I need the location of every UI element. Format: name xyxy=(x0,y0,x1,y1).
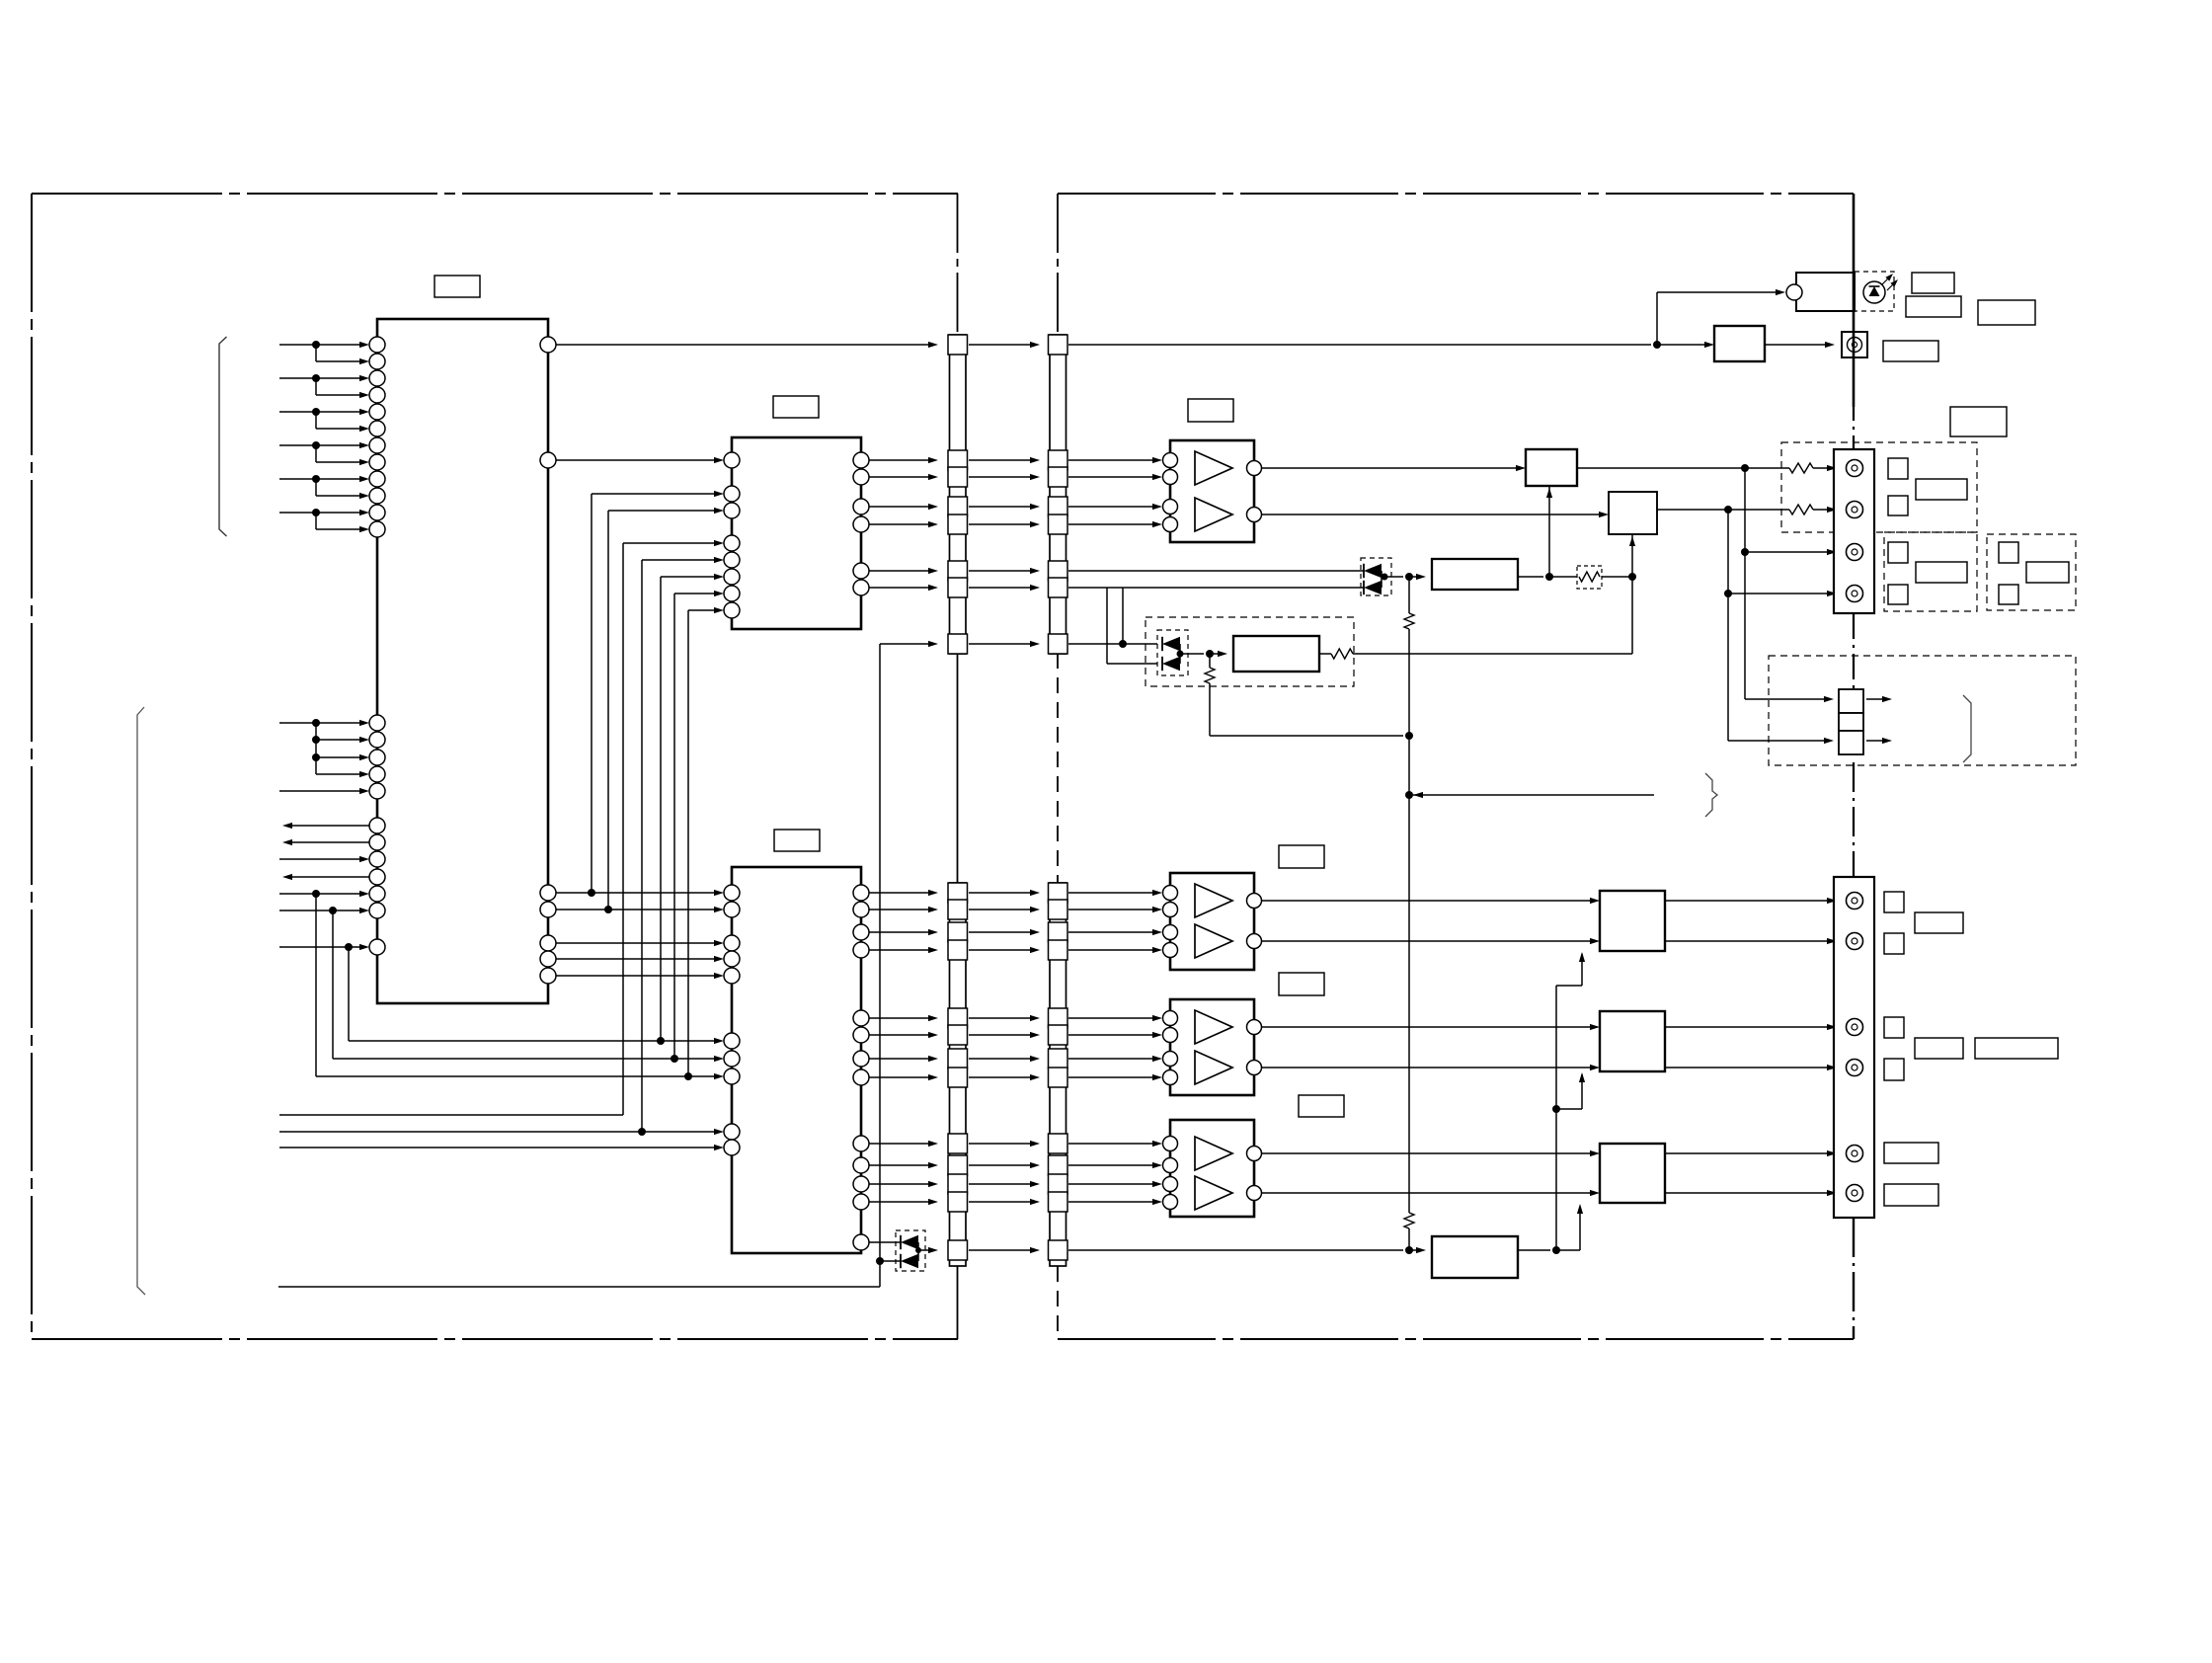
wire bus U101 to IC201/IC301 xyxy=(688,607,724,1076)
label wide a12 xyxy=(1915,912,1963,933)
IC402 input pin xyxy=(1163,886,1178,901)
dashed group box right small xyxy=(1987,534,2076,610)
U101 pin right xyxy=(540,968,556,984)
wire U101 to IC301 xyxy=(556,956,724,962)
wire buffer to K7 b xyxy=(1261,1065,1600,1070)
wire U101 to IC301 with tap xyxy=(556,906,724,913)
wire audio row through connectors xyxy=(869,1162,1162,1168)
wire K6 to jack a xyxy=(1665,898,1837,904)
wire audio row through connectors xyxy=(869,907,1162,912)
diode pair D202 xyxy=(1157,630,1204,675)
IC201 pin right xyxy=(853,516,869,532)
wire input to U101 xyxy=(279,856,369,862)
U101 pin left upper xyxy=(369,337,385,353)
label wide a34 xyxy=(1915,1038,1963,1059)
IC404 output pin xyxy=(1247,1186,1262,1201)
U101 pin left upper xyxy=(369,521,385,537)
U101 pin left lower xyxy=(369,750,385,765)
IC403 input pin xyxy=(1163,1052,1178,1067)
wire U101 to IC301 xyxy=(556,940,724,946)
wire tap row595 to row652 xyxy=(1122,588,1124,644)
wire input row to IC301 xyxy=(279,1128,724,1136)
IC402 output pin xyxy=(1247,934,1262,949)
IC IC201 label box xyxy=(773,396,819,418)
IC401 output pin xyxy=(1247,508,1262,522)
wire input pair to U101 xyxy=(279,341,369,364)
label wide r xyxy=(2026,562,2069,583)
IC201 pin right xyxy=(853,469,869,485)
wire audio row through connectors xyxy=(869,1199,1162,1205)
IC402 output pin xyxy=(1247,894,1262,909)
U101 pin left lower xyxy=(369,732,385,748)
board boundary below connector left xyxy=(957,1266,959,1339)
IC403 input pin xyxy=(1163,1028,1178,1043)
label sq jack2 xyxy=(1888,496,1908,515)
block K7 audio driver 2 xyxy=(1600,1011,1665,1071)
wire input row to IC301 xyxy=(279,1145,724,1150)
IC201 pin left xyxy=(724,535,740,551)
IC403 output pin xyxy=(1247,1020,1262,1035)
U101 pin left lower xyxy=(369,715,385,731)
label sq jack3 xyxy=(1888,542,1908,563)
diode pair D201 xyxy=(1361,558,1403,595)
IC201 pin left xyxy=(724,503,740,518)
label sq r1 xyxy=(1999,542,2018,563)
jack pin audio xyxy=(1847,1146,1863,1162)
IC201 pin right xyxy=(853,499,869,515)
wire K5 output chain xyxy=(1518,952,1585,1254)
U101 pin left upper xyxy=(369,505,385,520)
connector J202 audio out body xyxy=(1834,877,1874,1218)
label sq a1 xyxy=(1884,892,1904,912)
jack J101 remote out xyxy=(1842,332,1867,357)
wire bottom row to vertical riser xyxy=(278,644,884,1287)
connector CN101 board-to-board upper left half xyxy=(948,335,968,654)
wire main vertical chain xyxy=(1404,577,1414,1250)
connector CN202 board-to-board lower right half xyxy=(1049,883,1068,1266)
U101 pin left upper xyxy=(369,437,385,453)
wire audio row through connectors xyxy=(869,890,1162,896)
IC301 pin right xyxy=(853,1010,869,1026)
IC301 pin right xyxy=(853,1176,869,1192)
IC401 input pin xyxy=(1163,470,1178,485)
buffer amp IC403 body xyxy=(1170,999,1254,1095)
IC201 pin right xyxy=(853,580,869,595)
buffer triangle IC403-2 xyxy=(1195,1051,1232,1084)
IC201 pin left xyxy=(724,602,740,618)
wire video row through connectors xyxy=(869,521,1162,527)
bracket CN203 xyxy=(1963,695,1971,762)
U101 pin left upper xyxy=(369,471,385,487)
wire K8 to jack b xyxy=(1665,1190,1837,1196)
IC301 pin left xyxy=(724,1140,740,1155)
IC201 pin left xyxy=(724,552,740,568)
dashed group box video jacks xyxy=(1781,442,1977,532)
diode pair D301 protection xyxy=(869,1230,925,1271)
wire tap row595 to row672 xyxy=(1107,588,1157,664)
IC301 pin right xyxy=(853,1157,869,1173)
board boundary between connectors left xyxy=(957,653,959,883)
jack pin video xyxy=(1847,460,1863,477)
label wide a6 xyxy=(1884,1184,1938,1206)
buffer triangle IC402-1 xyxy=(1195,884,1232,917)
block K2 s-video driver xyxy=(1609,492,1657,534)
IC U101 label box xyxy=(434,276,480,297)
wire buffer to K6 a xyxy=(1261,898,1600,904)
IC201 pin right xyxy=(853,452,869,468)
jack pin audio xyxy=(1847,1060,1863,1076)
board outline left board bottom xyxy=(32,1338,958,1340)
wire into block K3 xyxy=(1409,574,1426,580)
U101 pin left lower xyxy=(369,766,385,782)
wire input pair to U101 xyxy=(279,441,369,465)
bracket input group lower xyxy=(137,707,145,1295)
IC403 input pin xyxy=(1163,1070,1178,1085)
IC IC301 latch body xyxy=(732,867,861,1253)
wire riser to K1 xyxy=(1546,486,1552,577)
wire U101 to IC301 with tap xyxy=(556,889,724,897)
wire input pair to U101 xyxy=(279,509,369,532)
wire bus row with taps xyxy=(316,1072,724,1080)
IC301 pin right xyxy=(853,1194,869,1210)
U101 pin left lower xyxy=(369,834,385,850)
U101 pin right xyxy=(540,935,556,951)
IC301 pin right xyxy=(853,1069,869,1085)
board boundary below connector right xyxy=(1057,1266,1059,1339)
buffer amp IC401 body xyxy=(1170,440,1254,542)
IC U101 microcontroller body xyxy=(377,319,548,1003)
IC402 label box xyxy=(1279,845,1324,868)
U101 pin left lower xyxy=(369,886,385,902)
wire tap vertical to jack3 and CN pin1 xyxy=(1741,468,1837,702)
wire bus U101 to IC201/IC301 xyxy=(642,557,724,1132)
IC201 pin right xyxy=(853,563,869,579)
U101 pin left upper xyxy=(369,404,385,420)
wire bus U101 to IC201/IC301 xyxy=(674,591,724,1059)
connector CN201 board-to-board upper right half xyxy=(1049,335,1068,654)
IC301 pin left xyxy=(724,1033,740,1049)
wire muting row through connectors xyxy=(925,1246,1426,1254)
wire to remote sensor xyxy=(1657,289,1785,345)
wire bus row with taps xyxy=(349,1037,724,1045)
wire video row through connectors xyxy=(869,504,1162,510)
IC201 pin left xyxy=(724,452,740,468)
IC404 output pin xyxy=(1247,1147,1262,1161)
node junction AFC xyxy=(1206,650,1214,658)
U101 pin left lower xyxy=(369,818,385,833)
IC301 pin right xyxy=(853,1234,869,1250)
label box remote 3 xyxy=(1978,300,2035,325)
wire K7 to jack a xyxy=(1665,1024,1837,1030)
IC402 input pin xyxy=(1163,903,1178,917)
LED D101 remote indicator xyxy=(1855,272,1898,311)
buffer triangle IC404-2 xyxy=(1195,1176,1232,1210)
wire K7 to jack b xyxy=(1665,1065,1837,1070)
connector J201 video out body xyxy=(1834,449,1874,613)
label wide a5 xyxy=(1884,1143,1938,1163)
wire U101 to IC201 data xyxy=(556,457,724,463)
dashed group box video jacks lower xyxy=(1884,532,1977,611)
IC301 pin right xyxy=(853,1136,869,1151)
label sq jack1 xyxy=(1888,458,1908,479)
wire audio row through connectors xyxy=(869,929,1162,935)
wire input quad to U101 xyxy=(279,719,369,777)
U101 pin left lower xyxy=(369,869,385,885)
IC403 label box xyxy=(1279,973,1324,995)
wire buffer out to block K2 xyxy=(1261,512,1609,517)
bracket right mid xyxy=(1705,773,1717,817)
board boundary at connector CN101 upper stub xyxy=(957,194,959,335)
IC301 pin left xyxy=(724,1051,740,1067)
U101 pin right xyxy=(540,902,556,917)
label sq a3 xyxy=(1884,1017,1904,1038)
wire audio row through connectors xyxy=(869,1015,1162,1021)
IC401 input pin xyxy=(1163,500,1178,515)
buffer triangle IC402-2 xyxy=(1195,924,1232,958)
IC301 pin right xyxy=(853,885,869,901)
wire K8 to jack a xyxy=(1665,1150,1837,1156)
IC404 input pin xyxy=(1163,1158,1178,1173)
wire audio row through connectors xyxy=(869,1056,1162,1062)
IC402 input pin xyxy=(1163,943,1178,958)
board outline right board bottom xyxy=(1058,1338,1854,1340)
U101 pin right xyxy=(540,885,556,901)
wire output from U101 xyxy=(282,823,369,829)
label wide jack34 xyxy=(1916,562,1967,583)
board outline right board right side xyxy=(1853,194,1856,1339)
IC301 pin right xyxy=(853,924,869,940)
wire input to U101 with tap xyxy=(279,943,369,1041)
jack pin audio xyxy=(1847,893,1863,910)
U101 pin left upper xyxy=(369,454,385,470)
wire CN203 out1 xyxy=(1866,696,1892,702)
IC IC301 label box xyxy=(774,830,820,851)
remote sensor pin xyxy=(1786,284,1802,300)
wire input pair to U101 xyxy=(279,475,369,499)
jack pin audio xyxy=(1847,1019,1863,1036)
wire sync row through connectors xyxy=(869,585,1361,591)
wire row to bus corner xyxy=(279,1114,623,1116)
wire buffer out to block K1 xyxy=(1261,465,1526,471)
buffer triangle IC403-1 xyxy=(1195,1010,1232,1044)
wire CN203 out2 xyxy=(1866,738,1892,744)
IC404 input pin xyxy=(1163,1177,1178,1192)
wire remote amp to jack xyxy=(1765,342,1835,348)
block remote amp xyxy=(1714,326,1765,361)
label sq a2 xyxy=(1884,933,1904,954)
U101 pin right xyxy=(540,951,556,967)
wire bus row with taps xyxy=(333,1055,724,1063)
U101 pin left upper xyxy=(369,354,385,369)
wire K1 to jack row with tap xyxy=(1577,463,1837,473)
label xwide a34 xyxy=(1975,1038,2058,1059)
IC301 pin left xyxy=(724,902,740,917)
wire bus U101 to IC201/IC301 xyxy=(661,574,724,1041)
wire resistor to riser xyxy=(1602,573,1636,581)
resistor R206 vertical xyxy=(1205,654,1215,736)
wire K2 to jack row with tap xyxy=(1657,505,1837,515)
wire buffer to K6 b xyxy=(1261,938,1600,944)
node junction K3 input xyxy=(1405,573,1413,581)
wire tap vertical to jack4 and CN pin2 xyxy=(1724,510,1837,744)
remote sensor RM101 body xyxy=(1796,273,1855,311)
jack pin video xyxy=(1847,586,1863,602)
wire input to U101 with tap xyxy=(279,890,369,1076)
wire video row through connectors xyxy=(869,474,1162,480)
IC201 pin left xyxy=(724,486,740,502)
wire output from U101 xyxy=(282,839,369,845)
wire buffer to K8 a xyxy=(1261,1150,1600,1156)
block K3 sync separator xyxy=(1432,559,1518,590)
U101 pin left lower xyxy=(369,939,385,955)
IC403 input pin xyxy=(1163,1011,1178,1026)
wire clock row through connectors xyxy=(556,341,1714,349)
IC401 label box xyxy=(1188,399,1233,422)
wire into block K4 xyxy=(1210,651,1227,657)
wire video row through connectors xyxy=(869,457,1162,463)
label box jack J101 xyxy=(1883,341,1938,361)
IC301 pin left xyxy=(724,951,740,967)
wire K4 out through resistor xyxy=(1319,649,1632,659)
buffer triangle A2 xyxy=(1195,498,1232,531)
jack pin video xyxy=(1847,502,1863,518)
U101 pin left upper xyxy=(369,488,385,504)
IC401 input pin xyxy=(1163,517,1178,532)
block K6 audio driver 1 xyxy=(1600,891,1665,951)
wire sync row through connectors xyxy=(869,568,1361,574)
IC301 pin right xyxy=(853,942,869,958)
wire AFC feedback row xyxy=(1210,732,1413,740)
IC402 input pin xyxy=(1163,925,1178,940)
wire input pair to U101 xyxy=(279,408,369,432)
wire audio row through connectors xyxy=(869,947,1162,953)
wire bus U101 to IC201/IC301 xyxy=(623,540,724,1115)
label box remote 1 xyxy=(1912,273,1954,293)
block K5 muting control xyxy=(1432,1236,1518,1278)
wire riser to K2 xyxy=(1629,534,1635,654)
wire arrow-left row xyxy=(1413,792,1654,798)
U101 pin left lower xyxy=(369,783,385,799)
IC301 pin right xyxy=(853,1051,869,1067)
wire K6 to jack b xyxy=(1665,938,1837,944)
U101 pin left lower xyxy=(369,903,385,918)
U101 pin left lower xyxy=(369,851,385,867)
label box above connector xyxy=(1950,407,2007,436)
IC IC201 latch body xyxy=(732,437,861,629)
buffer triangle A1 xyxy=(1195,451,1232,485)
label sq jack4 xyxy=(1888,585,1908,604)
IC301 pin left xyxy=(724,885,740,901)
wire mode row through connectors xyxy=(880,640,1157,648)
IC403 output pin xyxy=(1247,1061,1262,1075)
U101 pin left upper xyxy=(369,387,385,403)
wire U101 to IC301 xyxy=(556,973,724,979)
block K1 video out driver xyxy=(1526,449,1577,486)
IC301 pin left xyxy=(724,968,740,984)
IC404 input pin xyxy=(1163,1137,1178,1151)
bracket input group upper xyxy=(219,337,227,536)
connector CN102 board-to-board lower left half xyxy=(948,883,968,1266)
U101 pin left upper xyxy=(369,421,385,436)
buffer triangle IC404-1 xyxy=(1195,1137,1232,1170)
wire audio row through connectors xyxy=(869,1141,1162,1147)
IC301 pin left xyxy=(724,1124,740,1140)
wire output from U101 xyxy=(282,874,369,880)
board outline right board top xyxy=(1058,193,1854,195)
wire K3 output chain xyxy=(1518,573,1577,581)
dashed group box AFC xyxy=(1145,617,1354,686)
wire audio row through connectors xyxy=(869,1074,1162,1080)
wire input pair to U101 xyxy=(279,374,369,398)
block K8 audio driver 3 xyxy=(1600,1144,1665,1203)
U101 pin right xyxy=(540,452,556,468)
label sq r2 xyxy=(1999,585,2018,604)
IC301 pin right xyxy=(853,1027,869,1043)
IC401 input pin xyxy=(1163,453,1178,468)
connector CN203 3pin xyxy=(1839,689,1863,754)
IC201 pin left xyxy=(724,569,740,585)
U101 pin right xyxy=(540,337,556,353)
board outline left board left side xyxy=(31,194,33,1339)
jack pin video xyxy=(1847,544,1863,561)
label wide jack12 xyxy=(1916,479,1967,500)
board boundary between connectors right xyxy=(1057,653,1059,883)
U101 pin left upper xyxy=(369,370,385,386)
dashed group box monitor out xyxy=(1769,656,2076,765)
wire audio row through connectors xyxy=(869,1032,1162,1038)
jack pin audio xyxy=(1847,1185,1863,1202)
wire bus U101 to IC201/IC301 xyxy=(608,508,724,910)
block K4 AFC amp xyxy=(1233,636,1319,672)
IC301 pin left xyxy=(724,1069,740,1084)
IC401 output pin xyxy=(1247,461,1262,476)
wire input to U101 with tap xyxy=(279,907,369,1059)
IC404 label box xyxy=(1299,1095,1344,1117)
wire buffer to K7 a xyxy=(1261,1024,1600,1030)
jack pin audio xyxy=(1847,933,1863,950)
IC301 pin left xyxy=(724,935,740,951)
board boundary at connector CN201 upper stub xyxy=(1057,194,1059,335)
buffer amp IC402 body xyxy=(1170,873,1254,970)
wire buffer to K8 b xyxy=(1261,1190,1600,1196)
wire input to U101 xyxy=(279,788,369,794)
IC301 pin right xyxy=(853,902,869,917)
wire audio row through connectors xyxy=(869,1181,1162,1187)
resistor R205 dashed xyxy=(1577,566,1602,589)
board outline left board top xyxy=(32,193,958,195)
IC201 pin left xyxy=(724,586,740,601)
label sq a4 xyxy=(1884,1059,1904,1080)
wire bus U101 to IC201/IC301 xyxy=(592,491,724,893)
buffer amp IC404 body xyxy=(1170,1120,1254,1217)
label box remote 2 xyxy=(1906,296,1961,317)
IC404 input pin xyxy=(1163,1195,1178,1210)
